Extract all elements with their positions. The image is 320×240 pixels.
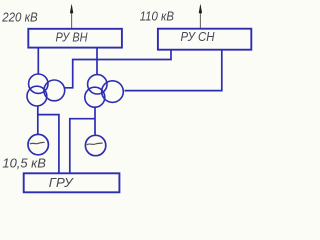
wire RU SN to T1 tertiary xyxy=(65,50,171,88)
busbar box RU SN xyxy=(158,29,251,50)
wire RU SN to T2 tertiary xyxy=(125,50,222,91)
svg-text:10,5 кВ: 10,5 кВ xyxy=(2,157,46,171)
wire T1 branch to GRU xyxy=(38,115,59,174)
transformer T2 xyxy=(85,75,123,108)
transformer T1 xyxy=(27,74,65,106)
busbar box RU VN xyxy=(28,29,122,48)
svg-text:220 кВ: 220 кВ xyxy=(1,10,37,24)
svg-text:ГРУ: ГРУ xyxy=(49,175,74,190)
generator G1 xyxy=(28,134,48,154)
wire T2 to generator G2 xyxy=(94,107,96,135)
wire T1 to generator G1 xyxy=(37,106,39,134)
wire T2 branch to GRU xyxy=(70,119,95,174)
busbar box GRU xyxy=(24,173,120,192)
svg-text:РУ ВН: РУ ВН xyxy=(56,29,89,44)
svg-text:РУ СН: РУ СН xyxy=(181,29,216,44)
arrow to 220 kV system xyxy=(70,4,73,29)
arrow to 110 kV system xyxy=(199,4,202,29)
wire RU VN to T2 xyxy=(96,48,98,75)
svg-text:110 кВ: 110 кВ xyxy=(140,9,174,23)
generator G2 xyxy=(85,135,105,155)
wire RU VN to T1 xyxy=(37,48,39,75)
